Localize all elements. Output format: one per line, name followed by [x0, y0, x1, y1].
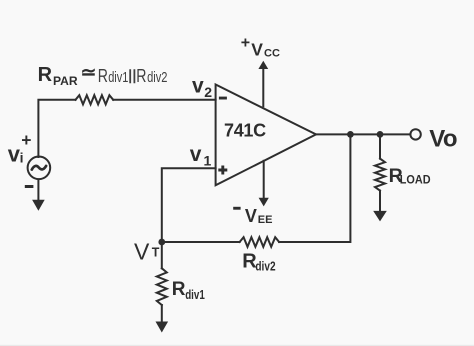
svg-text:div2: div2 — [147, 70, 167, 86]
svg-text:+: + — [21, 130, 31, 150]
svg-text:R: R — [98, 65, 108, 86]
svg-text:PAR: PAR — [53, 76, 78, 88]
svg-text:2: 2 — [204, 84, 212, 100]
svg-text:R: R — [38, 64, 53, 86]
svg-text:i: i — [20, 149, 24, 165]
svg-text:v: v — [190, 143, 202, 166]
svg-text:R: R — [172, 279, 186, 300]
svg-text:R: R — [136, 65, 146, 86]
svg-text:v: v — [192, 74, 204, 97]
svg-text:CC: CC — [264, 48, 280, 60]
svg-text:div1: div1 — [108, 70, 128, 86]
svg-text:div2: div2 — [255, 259, 275, 274]
svg-text:+: + — [241, 35, 250, 52]
svg-text:Vo: Vo — [429, 126, 457, 153]
svg-text:V: V — [245, 206, 257, 226]
svg-text:≃: ≃ — [81, 63, 97, 84]
svg-text:V: V — [134, 239, 150, 265]
svg-text:div1: div1 — [185, 287, 205, 302]
svg-text:741C: 741C — [224, 121, 266, 141]
svg-text:EE: EE — [258, 214, 273, 226]
svg-text:1: 1 — [204, 152, 212, 168]
svg-text:V: V — [251, 39, 263, 59]
svg-text:T: T — [152, 246, 160, 260]
svg-text:LOAD: LOAD — [400, 172, 431, 186]
